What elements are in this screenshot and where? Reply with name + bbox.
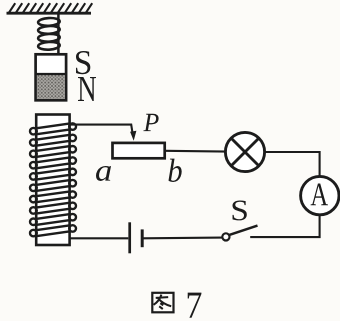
lamp (circle with X) — [225, 132, 264, 171]
rheostat (potentiometer) body — [113, 143, 165, 158]
spring hanging from ceiling — [38, 14, 60, 54]
terminal label a — [96, 166, 111, 181]
ammeter A — [301, 176, 339, 214]
caption figure number 7 — [188, 293, 202, 318]
wire from rheostat b terminal to lamp — [166, 150, 227, 153]
wire from switch pivot to battery — [143, 237, 222, 240]
caption 图 (figure) glyph drawn as strokes — [152, 293, 173, 313]
terminal label b — [169, 159, 182, 182]
ceiling support with hatching — [7, 3, 93, 13]
coil (solenoid) on iron core — [30, 115, 76, 246]
wire from coil top to slider arrow — [70, 125, 133, 134]
switch label S — [232, 201, 246, 221]
slider arrow P onto rheostat — [130, 131, 136, 141]
wire from ammeter down to switch contact — [250, 215, 319, 237]
wire from lamp to ammeter (right top corner) — [264, 152, 320, 178]
magnet pole label S — [76, 51, 90, 74]
battery cell — [130, 222, 143, 253]
bar magnet (S pole top, N pole bottom) — [35, 54, 67, 100]
magnet pole label N — [78, 77, 96, 101]
label P — [143, 114, 158, 131]
switch S (open) — [222, 226, 257, 241]
wire from battery back to coil bottom — [70, 237, 129, 239]
